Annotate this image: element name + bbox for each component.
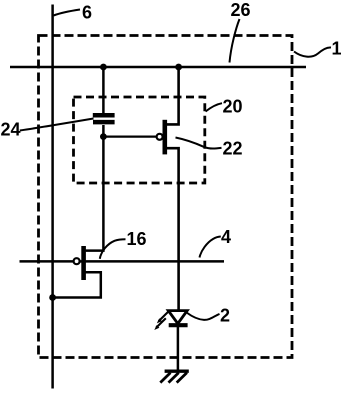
transistor Q 22 drain lead to power line: [166, 67, 179, 124]
label 4 leader: [200, 237, 221, 258]
svg-text:22: 22: [223, 139, 243, 159]
LED D 2 light emission arrow 1: [157, 312, 169, 324]
node: junction dot power line / capacitor: [100, 64, 107, 71]
svg-text:1: 1: [332, 39, 341, 59]
svg-text:20: 20: [223, 97, 243, 117]
wire: storage node down to switching transistor 16: [86, 137, 104, 251]
transistor Q 16 channel bar: [81, 246, 86, 280]
ground symbol: [160, 371, 189, 382]
wire: power line to capacitor top plate: [102, 67, 105, 113]
node: junction dot data line / transistor 16: [49, 294, 56, 301]
LED D 2 anode triangle: [168, 311, 187, 324]
label 22 leader: [176, 138, 222, 149]
label 26 leader: [230, 19, 240, 63]
wire: data line 6 (vertical): [51, 5, 54, 389]
transistor Q 22 channel bar: [163, 120, 168, 155]
wire: power supply line 26 (horizontal): [10, 66, 306, 69]
outer dashed pixel boundary box 1: [39, 36, 293, 358]
transistor Q 22 source lead down to LED: [166, 148, 179, 310]
transistor Q 16 source lead loop to data line: [53, 272, 101, 297]
svg-text:4: 4: [221, 227, 231, 247]
svg-text:6: 6: [82, 3, 92, 23]
svg-text:16: 16: [127, 229, 147, 249]
label 24 leader: [20, 119, 94, 131]
label 16 leader: [100, 239, 126, 259]
capacitor C 24 top plate: [93, 113, 115, 118]
inner dashed box 20: [74, 97, 205, 183]
wire: scan line 4 (horizontal): [20, 260, 225, 263]
transistor Q 22 gate circle (p-type): [157, 134, 163, 140]
label 2 leader: [187, 313, 220, 320]
svg-text:24: 24: [1, 120, 21, 140]
svg-text:26: 26: [231, 0, 251, 20]
wire: storage node to gate of drive transistor 22: [103, 136, 156, 138]
label 6 leader: [54, 10, 81, 16]
wire: LED cathode to ground: [177, 327, 180, 370]
transistor Q 16 gate circle (p-type): [74, 258, 80, 264]
node: storage node junction dot: [100, 133, 107, 140]
LED D 2 light emission arrow 2: [154, 318, 166, 330]
node: junction dot power line / transistor 22 drain: [175, 64, 182, 71]
label 1 leader: [294, 47, 331, 56]
wire: capacitor bottom plate to storage node: [102, 125, 105, 137]
LED D 2 cathode bar: [169, 323, 188, 327]
label 20 leader: [206, 103, 223, 111]
svg-text:2: 2: [220, 306, 230, 326]
capacitor C 24 bottom plate: [93, 120, 115, 125]
